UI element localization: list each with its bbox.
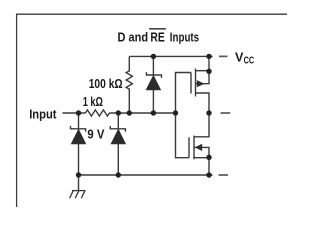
svg-text:9 V: 9 V — [87, 128, 105, 142]
body lead — [194, 147, 209, 157]
junction dot vcc-pmos — [206, 54, 211, 59]
label D and RE Inputs — [118, 28, 200, 44]
channel bar — [195, 69, 197, 97]
channel bar — [193, 136, 195, 160]
source lead — [196, 70, 210, 72]
junction dot gnd-nmos — [206, 172, 211, 177]
junction dot input-gatebus — [173, 110, 178, 115]
junction dot vcc-clamp — [151, 54, 156, 59]
source lead — [194, 158, 209, 175]
gate bus wire — [176, 73, 192, 158]
Vcc rail wire — [130, 55, 213, 57]
drain lead — [194, 113, 209, 137]
svg-text:Inputs: Inputs — [170, 31, 199, 45]
svg-text:D and: D and — [118, 31, 149, 45]
body lead — [196, 71, 210, 83]
junction dot gnd-zener1 — [76, 172, 81, 177]
resistor 1 kOhm — [85, 110, 109, 116]
svg-text:Input: Input — [29, 107, 57, 121]
junction dot output node — [206, 110, 211, 115]
junction dot pmos source — [206, 69, 211, 74]
svg-text:1 kΩ: 1 kΩ — [83, 95, 103, 109]
junction dot gnd-zener2 — [116, 172, 121, 177]
zener clamp diode to Vcc — [146, 56, 161, 113]
drain lead — [196, 93, 210, 113]
zener diode 9V (left) — [71, 113, 86, 175]
output node dash — [221, 112, 231, 114]
junction dot input-clamp — [151, 110, 156, 115]
body arrow (n-channel) — [195, 144, 202, 151]
zener diode (right) — [110, 113, 125, 175]
ground rail dashed continuation — [219, 174, 229, 176]
svg-text:RE: RE — [150, 31, 164, 45]
resistor 100 kOhm (vertical) with leads — [126, 56, 132, 113]
n-channel MOSFET (lower) — [189, 113, 209, 175]
gate bar — [188, 137, 190, 157]
label Vcc — [235, 49, 254, 66]
svg-text:CC: CC — [244, 55, 255, 66]
chassis ground symbol — [70, 175, 86, 198]
gate bar — [190, 73, 192, 94]
input wire (left segment) — [62, 112, 85, 114]
source-vcc wire — [208, 56, 210, 71]
p-channel MOSFET (upper) — [191, 56, 209, 113]
junction dot input-zener2 — [116, 110, 121, 115]
input node wire (right segment to gate bus) — [109, 112, 175, 114]
junction dot input-zener1 — [76, 110, 81, 115]
figure border frame — [17, 14, 287, 207]
svg-text:100 kΩ: 100 kΩ — [89, 77, 123, 91]
svg-text:V: V — [235, 49, 244, 64]
ground rail wire — [79, 174, 213, 176]
body arrow (p-channel) — [197, 80, 205, 87]
Vcc dashed continuation — [219, 55, 228, 57]
junction dot nmos source — [206, 155, 211, 160]
junction dot input-100k — [127, 110, 132, 115]
